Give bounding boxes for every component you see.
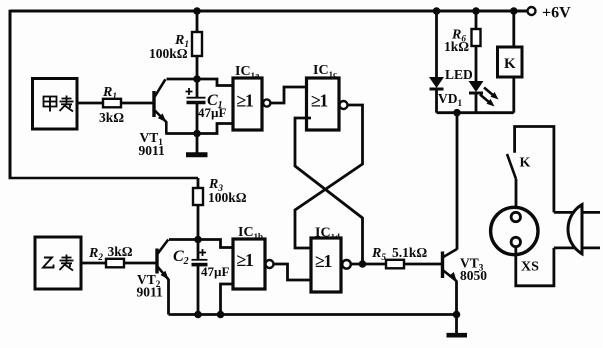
label biao character (2) [60,255,74,271]
wire IC1d out up-cross to IC1c input [295,118,363,264]
wire IC1b out to IC1d in [274,264,312,280]
op-amp gate IC1c [307,78,340,130]
wire R1 bottom stub [196,56,199,79]
wire IC1a out to IC1c in [270,87,306,103]
wire R3 top stub [197,178,200,188]
capacitor C1 [186,79,206,134]
label biao character [60,96,74,112]
label XS [521,260,539,275]
svg-text:3kΩ: 3kΩ [108,244,133,259]
IC1c output bubble [340,101,348,109]
svg-text:9011: 9011 [137,285,164,300]
wire VT3 collector riser [456,113,459,250]
wire relay K bottom [512,77,515,113]
svg-text:100kΩ: 100kΩ [208,190,247,205]
label C1 [207,92,223,111]
node IC1b riser ground [217,311,225,319]
wire IC1a input top [197,79,233,86]
LED emission arrows [480,88,499,107]
terminal +6V open circle [528,7,536,15]
node top rail VD1 [433,7,441,15]
op-amp gate IC1a [233,78,262,130]
IC1a output bubble [263,99,270,106]
label VT2 [137,272,161,289]
wire ground rail bottom [169,313,457,316]
label IC1a [235,64,260,80]
svg-text:9011: 9011 [139,143,166,158]
svg-text:1kΩ: 1kΩ [444,39,469,54]
label C2 [173,248,189,267]
label R3 [208,177,223,193]
label 3kOhm [99,110,124,125]
label 100kOhm [149,46,188,61]
switch K blade [507,154,516,179]
label jia character [44,97,57,112]
node C2 ground [194,311,202,319]
label 1kOhm [444,39,469,54]
resistor R5 [386,260,404,269]
node junction top rail at R1 [193,7,201,15]
wire switch to socket [515,179,518,212]
svg-text:+6V: +6V [542,5,571,22]
label IC1b [238,225,263,241]
svg-text:XS: XS [521,260,539,275]
node IC1d out [359,260,367,268]
box meter B (yi biao) [35,237,81,289]
node C1 bottom [193,130,201,138]
node top rail relay K [510,7,518,15]
wire socket bottom [516,247,554,286]
label IC1d [315,226,340,242]
label R1 (3k) [102,85,117,101]
wire IC1c out down-cross to IC1d input [295,105,363,248]
wire left frame rail [9,10,12,178]
wire LED bus horizontal [437,111,514,114]
label 47uF [198,105,226,120]
wire VT3 emitter down [455,281,458,315]
wire VT1 emitter to node [165,132,197,135]
node LED bus to VT3 [453,109,461,117]
label 9011 [139,143,166,158]
svg-text:3kΩ: 3kΩ [99,110,124,125]
label LED [445,67,473,82]
ground under C1 [186,134,208,155]
node C1 top [193,75,201,83]
wire IC1a input bottom [197,124,233,134]
label K relay [504,56,516,72]
label yi character [43,258,54,268]
svg-text:K: K [504,56,516,72]
transistor VT3 [443,249,458,281]
node C2 top [194,236,202,244]
diode VD1 [429,11,444,113]
label R6 [451,28,466,44]
label K switch [520,156,531,171]
svg-text:100kΩ: 100kΩ [149,46,188,61]
label 3kOhm (2) [108,244,133,259]
plug body crescent [568,205,582,254]
wire VT2 emitter down [167,279,170,315]
IC1d output bubble [342,260,351,269]
resistor R2 [106,259,124,268]
socket XS pin top [511,212,520,221]
svg-text:≥1: ≥1 [311,91,328,111]
label VD1 [438,91,463,108]
label R1 [174,33,189,49]
wire K switch circuit top [515,127,554,213]
svg-text:47µF: 47µF [198,105,226,120]
LED diode [469,81,484,113]
IC1b output bubble [266,260,274,268]
svg-text:8050: 8050 [460,268,487,283]
transistor VT2 [157,240,169,280]
wire meterB to R2 [81,262,106,265]
label VT3 [460,256,484,273]
transistor VT1 [154,79,166,133]
wire R2 to VT2 base [124,262,157,265]
label 100kOhm (3) [208,190,247,205]
svg-text:≥1: ≥1 [237,91,254,111]
wire IC1b input bottom riser [221,284,234,315]
wire plug prong bottom [554,246,600,249]
svg-text:LED: LED [445,67,473,82]
resistor R1 3k [103,99,121,108]
wire meterA to R1(3k) [77,102,103,105]
wire VT2 collector to node [169,238,198,241]
label VT1 [140,130,164,147]
label 47uF (2) [201,264,229,279]
label 8050 [460,268,487,283]
op-amp gate IC1b [233,239,265,289]
relay K box [498,47,523,77]
wire top +6V rail [10,10,527,13]
resistor R6 [472,11,481,81]
label +6V [542,5,571,22]
wire R1 to VT1 base [121,102,153,105]
label R5 [371,246,386,262]
box meter A (jia biao) [33,79,78,130]
wire frame to R3 [9,177,199,180]
label R2 [88,246,103,262]
wire R5 to VT3 base [404,263,442,266]
label IC1c [313,63,337,79]
svg-text:K: K [520,156,531,171]
wire relay K top [512,11,515,47]
resistor R3 [193,188,203,205]
capacitor C2 [192,240,208,315]
label 9011 (2) [137,285,164,300]
wire IC1d out to R5 [351,263,386,266]
socket XS pin bottom [511,237,520,246]
svg-text:5.1kΩ: 5.1kΩ [392,245,427,260]
wire VT1 collector to node [167,78,198,81]
svg-text:≥1: ≥1 [237,250,254,270]
op-amp gate IC1d [311,238,341,292]
node VT3 emitter ground [453,311,461,319]
ground symbol main [447,315,468,336]
node top rail R6 [472,7,480,15]
svg-text:≥1: ≥1 [315,251,332,271]
resistor R1 100k [192,32,202,56]
wire R1 top stub [196,11,199,32]
svg-text:47µF: 47µF [201,264,229,279]
label 5.1kOhm [392,245,427,260]
wire R3 bottom to node [197,205,200,240]
wire plug prong top [554,211,600,214]
wire IC1b input top [198,240,233,248]
socket XS outer circle [491,207,538,254]
